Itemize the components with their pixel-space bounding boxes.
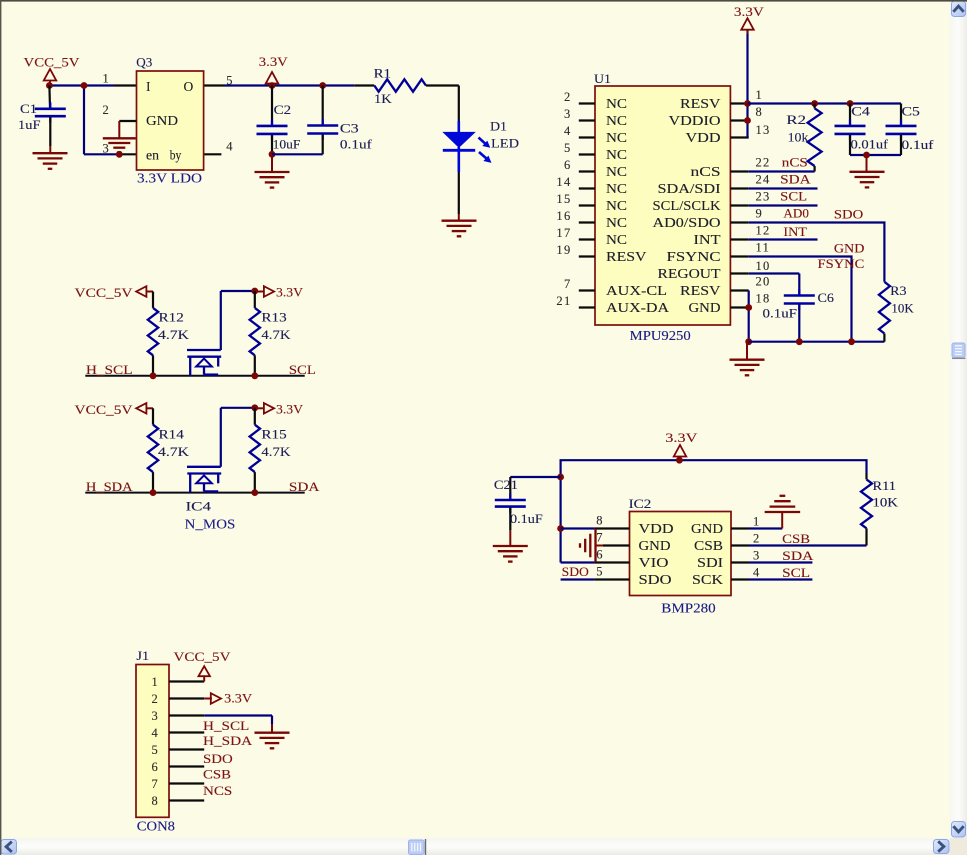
svg-text:SDI: SDI [697, 555, 724, 570]
svg-text:GND: GND [691, 521, 723, 536]
svg-text:NC: NC [606, 147, 627, 162]
svg-text:14: 14 [556, 175, 571, 189]
svg-text:C1: C1 [20, 101, 37, 116]
svg-text:6: 6 [564, 158, 572, 172]
svg-text:4: 4 [151, 726, 159, 740]
svg-text:1: 1 [756, 88, 764, 102]
svg-text:2: 2 [753, 532, 761, 546]
svg-text:17: 17 [556, 226, 571, 240]
svg-text:9: 9 [756, 207, 764, 221]
svg-text:23: 23 [756, 190, 771, 204]
svg-text:C5: C5 [902, 104, 920, 119]
svg-text:3.3V: 3.3V [276, 401, 304, 416]
svg-text:LED: LED [491, 135, 519, 150]
svg-text:3.3V: 3.3V [224, 691, 253, 706]
svg-text:VDD: VDD [639, 521, 674, 536]
svg-text:18: 18 [756, 292, 771, 306]
svg-text:7: 7 [564, 277, 572, 291]
svg-text:CSB: CSB [203, 767, 231, 782]
svg-text:CON8: CON8 [137, 819, 175, 834]
svg-text:1: 1 [151, 675, 159, 689]
svg-text:3.3V: 3.3V [734, 4, 765, 19]
svg-text:0.01uf: 0.01uf [851, 137, 889, 152]
svg-text:N_MOS: N_MOS [185, 517, 236, 532]
svg-text:R14: R14 [159, 426, 185, 441]
svg-text:RESV: RESV [606, 249, 647, 264]
svg-text:GND: GND [689, 300, 721, 315]
svg-text:3.3V: 3.3V [259, 54, 289, 69]
svg-text:7: 7 [596, 531, 604, 545]
svg-text:nCS: nCS [691, 164, 721, 179]
svg-text:1: 1 [753, 515, 761, 529]
svg-text:H_SDA: H_SDA [203, 733, 253, 748]
svg-text:3: 3 [753, 549, 761, 563]
svg-text:IC4: IC4 [186, 498, 212, 513]
svg-text:SCL/SCLK: SCL/SCLK [653, 198, 721, 213]
svg-text:SDO: SDO [203, 751, 233, 766]
svg-text:REGOUT: REGOUT [658, 266, 722, 281]
svg-text:22: 22 [756, 156, 771, 170]
svg-text:5: 5 [151, 743, 159, 757]
svg-text:I: I [146, 79, 152, 94]
svg-text:5: 5 [226, 74, 234, 88]
svg-text:SDA/SDI: SDA/SDI [658, 181, 722, 196]
svg-text:0.1uf: 0.1uf [340, 137, 373, 152]
svg-text:nCS: nCS [782, 155, 808, 170]
svg-text:C3: C3 [340, 121, 359, 136]
svg-text:C4: C4 [851, 104, 870, 119]
svg-text:H_SCL: H_SCL [86, 362, 133, 377]
svg-text:VCC_5V: VCC_5V [75, 402, 134, 417]
svg-text:4: 4 [753, 566, 761, 580]
svg-text:4.7K: 4.7K [261, 327, 291, 342]
svg-text:4: 4 [226, 140, 234, 154]
svg-text:SCL: SCL [780, 189, 807, 204]
svg-text:Q3: Q3 [136, 54, 152, 69]
svg-text:R1: R1 [374, 66, 391, 81]
svg-text:CSB: CSB [782, 531, 810, 546]
svg-text:NC: NC [606, 181, 627, 196]
svg-text:24: 24 [756, 173, 771, 187]
svg-text:CSB: CSB [694, 538, 723, 553]
svg-text:FSYNC: FSYNC [818, 256, 865, 271]
svg-text:NC: NC [606, 113, 627, 128]
svg-text:SDA: SDA [780, 172, 811, 187]
svg-text:10K: 10K [891, 300, 914, 315]
svg-text:NCS: NCS [203, 783, 232, 798]
svg-text:D1: D1 [490, 119, 507, 134]
svg-text:NC: NC [606, 164, 627, 179]
svg-text:C21: C21 [494, 477, 518, 492]
svg-text:GND: GND [146, 113, 178, 128]
svg-text:C6: C6 [818, 290, 835, 305]
svg-text:SCK: SCK [692, 572, 723, 587]
svg-text:8: 8 [151, 794, 159, 808]
svg-text:10uF: 10uF [273, 137, 301, 152]
svg-text:R15: R15 [261, 426, 286, 441]
svg-text:1uF: 1uF [18, 117, 41, 132]
svg-text:RESV: RESV [680, 283, 721, 298]
svg-text:C2: C2 [274, 102, 292, 117]
svg-text:FSYNC: FSYNC [667, 249, 721, 264]
svg-text:INT: INT [783, 224, 807, 239]
svg-text:3: 3 [151, 709, 159, 723]
svg-text:NC: NC [606, 130, 627, 145]
svg-text:SCL: SCL [289, 362, 316, 377]
svg-text:SDO: SDO [562, 564, 589, 579]
svg-text:4.7K: 4.7K [158, 327, 190, 342]
svg-text:2: 2 [564, 90, 572, 104]
svg-text:1K: 1K [374, 91, 392, 106]
svg-text:2: 2 [103, 103, 111, 117]
svg-text:7: 7 [151, 777, 159, 791]
svg-text:R3: R3 [890, 283, 906, 298]
svg-text:RESV: RESV [680, 96, 721, 111]
svg-text:3.3V LDO: 3.3V LDO [137, 171, 202, 186]
svg-text:SCL: SCL [782, 565, 810, 580]
svg-text:5: 5 [596, 565, 604, 579]
svg-text:IC2: IC2 [629, 496, 652, 511]
svg-text:by: by [170, 148, 182, 163]
svg-text:10K: 10K [873, 495, 899, 510]
svg-text:15: 15 [556, 192, 571, 206]
svg-text:SDO: SDO [834, 207, 863, 222]
svg-text:SDO: SDO [639, 572, 672, 587]
svg-text:VCC_5V: VCC_5V [174, 649, 232, 664]
svg-text:R11: R11 [873, 478, 897, 493]
svg-text:2: 2 [151, 692, 159, 706]
svg-text:R12: R12 [159, 310, 184, 325]
svg-text:U1: U1 [594, 71, 611, 86]
svg-text:8: 8 [596, 514, 604, 528]
svg-text:O: O [183, 79, 194, 94]
svg-text:12: 12 [756, 224, 771, 238]
svg-text:5: 5 [564, 141, 572, 155]
svg-text:GND: GND [834, 241, 865, 256]
svg-text:J1: J1 [136, 648, 149, 663]
svg-text:VIO: VIO [639, 555, 669, 570]
svg-text:AD0/SDO: AD0/SDO [653, 215, 721, 230]
svg-text:0.1uf: 0.1uf [902, 137, 935, 152]
svg-text:4: 4 [564, 124, 572, 138]
svg-text:4.7K: 4.7K [261, 444, 291, 459]
svg-text:AUX-DA: AUX-DA [606, 300, 669, 315]
svg-text:3: 3 [564, 107, 572, 121]
svg-text:4.7K: 4.7K [158, 444, 190, 459]
svg-text:16: 16 [556, 209, 571, 223]
svg-text:6: 6 [596, 548, 604, 562]
svg-text:R2: R2 [786, 112, 806, 127]
svg-text:3.3V: 3.3V [665, 430, 698, 445]
svg-text:11: 11 [756, 241, 771, 255]
svg-text:INT: INT [694, 232, 722, 247]
svg-text:VCC_5V: VCC_5V [75, 285, 134, 300]
svg-text:H_SCL: H_SCL [203, 718, 249, 733]
svg-text:en: en [146, 148, 159, 163]
svg-text:MPU9250: MPU9250 [630, 328, 691, 343]
svg-text:1: 1 [103, 72, 111, 86]
svg-text:SDA: SDA [782, 548, 814, 563]
svg-text:0.1uF: 0.1uF [763, 306, 798, 321]
svg-text:NC: NC [606, 198, 627, 213]
svg-text:VDD: VDD [686, 130, 721, 145]
svg-text:20: 20 [756, 275, 771, 289]
svg-text:BMP280: BMP280 [661, 600, 716, 615]
svg-text:13: 13 [756, 123, 771, 137]
svg-text:3.3V: 3.3V [276, 285, 304, 300]
svg-text:NC: NC [606, 96, 627, 111]
svg-text:21: 21 [556, 294, 571, 308]
svg-text:R13: R13 [261, 310, 286, 325]
svg-text:NC: NC [606, 215, 627, 230]
svg-text:10: 10 [756, 259, 771, 273]
svg-text:GND: GND [639, 538, 671, 553]
svg-text:0.1uF: 0.1uF [510, 511, 543, 526]
svg-text:VCC_5V: VCC_5V [24, 55, 81, 70]
svg-text:NC: NC [606, 232, 627, 247]
svg-text:SDA: SDA [289, 479, 320, 494]
svg-text:VDDIO: VDDIO [669, 113, 721, 128]
svg-text:10k: 10k [788, 129, 809, 144]
svg-text:H_SDA: H_SDA [86, 479, 133, 494]
svg-text:AUX-CL: AUX-CL [606, 283, 667, 298]
svg-text:8: 8 [756, 105, 764, 119]
svg-text:AD0: AD0 [783, 205, 809, 220]
svg-text:6: 6 [151, 760, 159, 774]
svg-text:19: 19 [556, 243, 571, 257]
